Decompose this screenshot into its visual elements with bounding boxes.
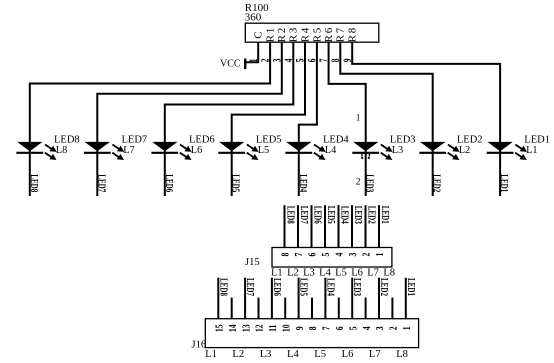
net label LED6 on wire below LED (163, 174, 175, 192)
J15 pin number 7 (294, 252, 306, 256)
J15 pin number 5 (321, 252, 333, 256)
wire J16 pin 2 (391, 298, 393, 319)
svg-text:8: 8 (308, 326, 320, 330)
svg-text:LED4: LED4 (339, 206, 351, 224)
svg-text:4: 4 (335, 252, 347, 256)
wire J16 pin 3 (378, 278, 380, 319)
svg-text:L1: L1 (271, 267, 283, 278)
svg-text:2: 2 (388, 326, 400, 330)
wire J16 pin 14 (231, 298, 233, 319)
svg-text:LED6: LED6 (189, 134, 215, 145)
svg-text:12: 12 (255, 324, 267, 332)
R100 pin number 8 (329, 59, 342, 63)
svg-text:LED2: LED2 (366, 206, 378, 224)
J16 pin number 12 (255, 324, 267, 332)
svg-text:L8: L8 (396, 349, 408, 360)
R100 pin number 1 (247, 59, 260, 63)
J16 pin number 9 (295, 326, 307, 330)
wire J16 pin 6 (338, 298, 340, 319)
wire R100 pin 5 to LED5 anode (232, 42, 305, 196)
svg-text:L8: L8 (383, 267, 395, 278)
svg-text:L6: L6 (351, 267, 363, 278)
J16 pin number 15 (214, 324, 226, 332)
svg-text:8: 8 (281, 252, 293, 256)
J15 pin number 4 (335, 252, 347, 256)
svg-text:L3: L3 (392, 145, 403, 156)
J15 pin number 1 (375, 252, 387, 256)
svg-text:LED3: LED3 (364, 174, 376, 192)
wire R100 pin 9 to LED1 anode (352, 42, 500, 196)
net label LED3 on wire below LED (364, 174, 376, 192)
R100 pin name R4 (299, 26, 311, 42)
svg-text:LED8: LED8 (285, 206, 297, 224)
svg-text:L4: L4 (287, 349, 299, 360)
svg-text:LED5: LED5 (230, 174, 242, 192)
svg-text:LED5: LED5 (298, 278, 310, 296)
R100 pin number 4 (282, 59, 295, 63)
net label LED8 on J16 pin 15 wire (218, 278, 230, 296)
svg-text:6: 6 (335, 326, 347, 330)
svg-text:R5: R5 (311, 26, 323, 42)
svg-text:LED1: LED1 (524, 134, 550, 145)
LED LED2 symbol (419, 142, 459, 160)
svg-text:R8: R8 (347, 26, 359, 42)
wire R100 pin 2 to LED8 anode (30, 42, 270, 196)
net label LED2 on J16 pin 3 wire (379, 278, 391, 296)
svg-text:VCC: VCC (220, 59, 241, 70)
svg-text:R4: R4 (299, 26, 311, 42)
net label LED1 on wire below LED (499, 174, 511, 192)
svg-text:LED1: LED1 (499, 174, 511, 192)
svg-text:LED2: LED2 (379, 278, 391, 296)
wire J16 pin 9 (298, 278, 300, 319)
LED LED3 symbol (352, 142, 392, 160)
svg-text:L5: L5 (335, 267, 347, 278)
R100 pin name R1 (265, 26, 277, 42)
svg-text:L2: L2 (232, 349, 244, 360)
R100 pin name R5 (311, 26, 323, 42)
resistor network R100 body (245, 23, 378, 42)
R100 pin number 3 (271, 59, 284, 63)
wire J16 pin 12 (258, 298, 260, 319)
svg-text:LED7: LED7 (245, 278, 257, 296)
svg-text:11: 11 (268, 324, 280, 331)
net label LED7 on J16 pin 13 wire (245, 278, 257, 296)
svg-text:L7: L7 (367, 267, 379, 278)
net label LED8 on wire below LED (28, 174, 40, 192)
svg-text:6: 6 (308, 252, 320, 256)
svg-text:L5: L5 (314, 349, 326, 360)
R100 pin name R7 (335, 26, 347, 42)
wire J16 pin 13 (244, 278, 246, 319)
svg-text:3: 3 (348, 252, 360, 256)
svg-text:L6: L6 (342, 349, 354, 360)
svg-text:7: 7 (294, 252, 306, 256)
svg-text:LED4: LED4 (323, 134, 349, 145)
LED LED4 symbol (285, 142, 325, 160)
svg-text:5: 5 (321, 252, 333, 256)
svg-text:1: 1 (375, 252, 387, 256)
wire J15 pin 6 (311, 205, 313, 247)
svg-text:L1: L1 (526, 145, 537, 156)
wire J16 pin 7 (324, 278, 326, 319)
svg-text:J16: J16 (192, 339, 207, 350)
svg-text:10: 10 (281, 324, 293, 332)
J16 pin number 14 (228, 324, 240, 332)
svg-text:R3: R3 (288, 26, 300, 42)
svg-text:1: 1 (356, 114, 361, 124)
svg-text:LED1: LED1 (380, 206, 392, 224)
wire R100 pin 3 to LED7 anode (97, 42, 281, 196)
svg-text:LED6: LED6 (163, 174, 175, 192)
R100 pin name R2 (276, 26, 288, 42)
R100 pin number 5 (294, 59, 307, 63)
J16 pin number 5 (348, 326, 360, 330)
R100 pin name R8 (347, 26, 359, 42)
svg-text:4: 4 (362, 326, 374, 330)
net label LED5 on J16 pin 9 wire (298, 278, 310, 296)
net label LED1 on J15 pin 1 wire (380, 206, 392, 224)
svg-text:L8: L8 (56, 145, 67, 156)
net label LED5 on J15 pin 5 wire (326, 206, 338, 224)
R100 pin name C (253, 30, 265, 39)
svg-text:L7: L7 (123, 145, 134, 156)
power port VCC bar (244, 59, 246, 69)
svg-text:L5: L5 (258, 145, 269, 156)
svg-text:R1: R1 (265, 26, 277, 42)
svg-text:L4: L4 (319, 267, 331, 278)
J16 pin number 6 (335, 326, 347, 330)
LED LED1 symbol (487, 142, 527, 160)
svg-text:LED1: LED1 (405, 278, 417, 296)
wire J15 pin 5 (324, 205, 326, 247)
LED LED5 symbol (218, 142, 258, 160)
J16 pin number 4 (362, 326, 374, 330)
svg-text:L6: L6 (191, 145, 202, 156)
svg-text:LED2: LED2 (431, 174, 443, 192)
net label LED4 on J15 pin 4 wire (339, 206, 351, 224)
J16 pin number 7 (321, 326, 333, 330)
R100 pin name R6 (323, 26, 335, 42)
net label LED2 on J15 pin 2 wire (366, 206, 378, 224)
svg-text:9: 9 (295, 326, 307, 330)
J16 pin number 11 (268, 324, 280, 331)
R100 pin number 2 (259, 59, 272, 63)
LED3 cathode pin tick marks (362, 154, 370, 157)
net label LED3 on J16 pin 5 wire (352, 278, 364, 296)
svg-text:C: C (253, 30, 265, 39)
J16 pin number 10 (281, 324, 293, 332)
wire J16 pin 1 (405, 278, 407, 319)
svg-text:L2: L2 (287, 267, 299, 278)
J16 pin number 2 (388, 326, 400, 330)
wire J16 pin 8 (311, 298, 313, 319)
svg-text:R6: R6 (323, 26, 335, 42)
wire J15 pin 1 (378, 205, 380, 247)
svg-text:1: 1 (402, 326, 414, 330)
wire R100 pin 7 to LED3 anode (329, 42, 366, 196)
svg-text:LED2: LED2 (457, 134, 483, 145)
net label LED4 on wire below LED (297, 174, 309, 192)
svg-text:13: 13 (241, 324, 253, 332)
J16 pin number 3 (375, 326, 387, 330)
net label LED6 on J16 pin 11 wire (272, 278, 284, 296)
svg-text:LED6: LED6 (272, 278, 284, 296)
svg-text:L3: L3 (303, 267, 315, 278)
svg-text:R2: R2 (276, 26, 288, 42)
connector J15 body (272, 248, 392, 268)
svg-text:LED8: LED8 (28, 174, 40, 192)
svg-text:R7: R7 (335, 26, 347, 42)
wire J16 pin 11 (271, 278, 273, 319)
svg-text:LED3: LED3 (353, 206, 365, 224)
R100 pin name R3 (288, 26, 300, 42)
wire J16 pin 10 (284, 298, 286, 319)
R100 pin number 7 (318, 59, 331, 63)
svg-text:L2: L2 (459, 145, 470, 156)
wire R100 pin 4 to LED6 anode (165, 42, 293, 196)
svg-text:LED5: LED5 (256, 134, 282, 145)
net label LED2 on wire below LED (431, 174, 443, 192)
wire J15 pin 4 (338, 205, 340, 247)
J16 pin number 8 (308, 326, 320, 330)
svg-text:LED8: LED8 (54, 134, 80, 145)
svg-text:L3: L3 (260, 349, 272, 360)
svg-text:3: 3 (375, 326, 387, 330)
wire R100 pin 8 to LED2 anode (340, 42, 432, 196)
svg-text:LED8: LED8 (218, 278, 230, 296)
connector J16 body (205, 319, 418, 348)
svg-text:LED3: LED3 (390, 134, 416, 145)
svg-text:LED5: LED5 (326, 206, 338, 224)
net label LED4 on J16 pin 7 wire (325, 278, 337, 296)
wire J15 pin 8 (284, 205, 286, 247)
J15 pin number 6 (308, 252, 320, 256)
net label LED8 on J15 pin 8 wire (285, 206, 297, 224)
J15 pin number 3 (348, 252, 360, 256)
svg-text:LED7: LED7 (96, 174, 108, 192)
svg-text:15: 15 (214, 324, 226, 332)
svg-text:LED6: LED6 (312, 206, 324, 224)
wire J16 pin 4 (365, 298, 367, 319)
svg-text:L7: L7 (369, 349, 381, 360)
svg-text:360: 360 (245, 11, 262, 23)
R100 pin number 6 (306, 59, 319, 63)
J16 pin number 13 (241, 324, 253, 332)
R100 pin number 9 (341, 59, 354, 63)
J15 pin number 8 (281, 252, 293, 256)
wire J16 pin 5 (351, 278, 353, 319)
svg-text:J15: J15 (245, 257, 260, 268)
net label LED5 on wire below LED (230, 174, 242, 192)
svg-text:2: 2 (362, 252, 374, 256)
svg-text:LED4: LED4 (297, 174, 309, 192)
wire J15 pin 7 (297, 205, 299, 247)
svg-text:LED4: LED4 (325, 278, 337, 296)
svg-text:14: 14 (228, 324, 240, 332)
wire J15 pin 3 (351, 205, 353, 247)
svg-text:LED3: LED3 (352, 278, 364, 296)
J15 pin number 2 (362, 252, 374, 256)
net label LED6 on J15 pin 6 wire (312, 206, 324, 224)
net label LED1 on J16 pin 1 wire (405, 278, 417, 296)
wire J16 pin 15 (217, 278, 219, 319)
LED LED7 symbol (84, 142, 124, 160)
LED LED6 symbol (151, 142, 191, 160)
svg-text:LED7: LED7 (122, 134, 148, 145)
wire VCC to R100 pin 1 (245, 42, 258, 62)
svg-text:7: 7 (321, 326, 333, 330)
net label LED7 on wire below LED (96, 174, 108, 192)
J16 pin number 1 (402, 326, 414, 330)
wire R100 pin 6 to LED4 anode (299, 42, 317, 196)
svg-text:2: 2 (356, 178, 361, 188)
LED LED8 symbol (16, 142, 56, 160)
svg-text:L4: L4 (325, 145, 336, 156)
svg-text:L1: L1 (205, 349, 217, 360)
wire J15 pin 2 (365, 205, 367, 247)
net label LED3 on J15 pin 3 wire (353, 206, 365, 224)
net label LED7 on J15 pin 7 wire (299, 206, 311, 224)
svg-text:LED7: LED7 (299, 206, 311, 224)
svg-text:5: 5 (348, 326, 360, 330)
